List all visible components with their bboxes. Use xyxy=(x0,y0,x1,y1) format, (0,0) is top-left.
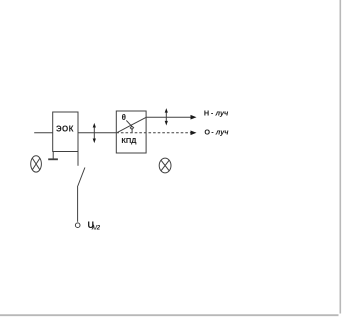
svg-text:Н-луч: Н-луч xyxy=(204,109,229,118)
svg-text:ЭОК: ЭОК xyxy=(56,124,74,133)
svg-text:θ: θ xyxy=(122,113,126,122)
svg-text:О-луч: О-луч xyxy=(204,127,229,136)
svg-text:λ/2: λ/2 xyxy=(91,226,101,232)
svg-text:КПД: КПД xyxy=(121,136,137,145)
